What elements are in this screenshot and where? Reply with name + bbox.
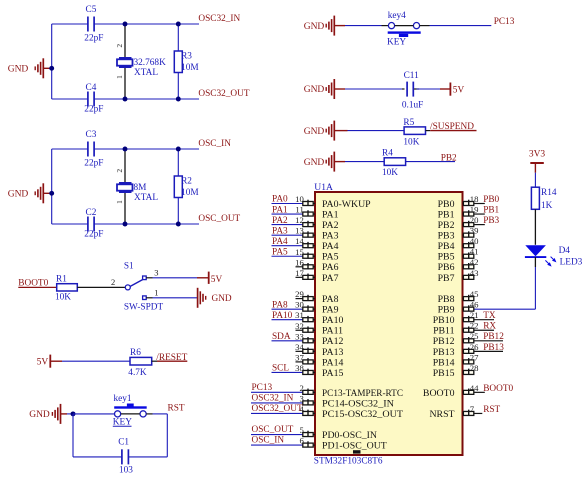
svg-text:PB12: PB12 — [483, 332, 504, 342]
svg-text:PB5: PB5 — [438, 252, 455, 263]
svg-text:C3: C3 — [86, 130, 97, 140]
svg-text:12: 12 — [295, 215, 304, 225]
svg-text:34: 34 — [295, 342, 304, 352]
svg-text:2: 2 — [115, 169, 124, 173]
svg-text:PA8: PA8 — [322, 294, 339, 305]
svg-text:42: 42 — [470, 257, 479, 267]
svg-text:PB15: PB15 — [433, 368, 455, 379]
svg-text:PB8: PB8 — [438, 294, 455, 305]
svg-text:26: 26 — [470, 342, 479, 352]
svg-text:5: 5 — [299, 425, 303, 435]
svg-text:XTAL: XTAL — [134, 193, 158, 203]
svg-text:43: 43 — [470, 268, 479, 278]
svg-text:PA1: PA1 — [272, 205, 288, 215]
svg-text:PB14: PB14 — [433, 357, 455, 368]
svg-text:PB13: PB13 — [433, 347, 455, 358]
svg-text:22pF: 22pF — [84, 229, 103, 239]
svg-text:PA0: PA0 — [272, 195, 288, 205]
svg-text:GND: GND — [29, 410, 50, 420]
svg-text:PA10: PA10 — [322, 315, 344, 326]
svg-text:13: 13 — [295, 226, 304, 236]
svg-text:PB13: PB13 — [483, 343, 504, 353]
svg-text:R3: R3 — [181, 52, 192, 62]
svg-text:GND: GND — [8, 190, 29, 200]
svg-text:41: 41 — [470, 247, 479, 257]
svg-text:PC13: PC13 — [252, 383, 273, 393]
svg-text:1: 1 — [115, 75, 124, 79]
svg-text:GND: GND — [304, 158, 325, 168]
svg-text:3: 3 — [299, 393, 303, 403]
svg-text:PA2: PA2 — [322, 220, 339, 231]
svg-text:2: 2 — [111, 277, 115, 287]
svg-text:PA5: PA5 — [322, 252, 339, 263]
svg-text:27: 27 — [470, 352, 479, 362]
svg-text:PA12: PA12 — [322, 336, 344, 347]
svg-text:R1: R1 — [56, 275, 67, 285]
svg-text:R5: R5 — [403, 118, 414, 128]
svg-text:10: 10 — [295, 194, 304, 204]
svg-text:OSC32_IN: OSC32_IN — [198, 14, 240, 24]
svg-text:GND: GND — [304, 127, 325, 137]
svg-text:10M: 10M — [181, 188, 199, 198]
svg-text:STM32F103C8T6: STM32F103C8T6 — [314, 457, 383, 467]
svg-text:BOOT0: BOOT0 — [423, 388, 455, 399]
svg-text:31: 31 — [295, 310, 304, 320]
svg-text:PA9: PA9 — [322, 305, 339, 316]
svg-text:PC15-OSC32_OUT: PC15-OSC32_OUT — [322, 409, 403, 420]
svg-text:LED3: LED3 — [560, 257, 583, 267]
svg-text:5V: 5V — [453, 86, 465, 96]
svg-text:22pF: 22pF — [84, 104, 103, 114]
svg-text:10K: 10K — [55, 293, 71, 303]
svg-text:29: 29 — [295, 289, 304, 299]
svg-text:32.768K: 32.768K — [134, 58, 167, 68]
svg-text:GND: GND — [304, 22, 325, 32]
svg-text:R2: R2 — [181, 177, 192, 187]
svg-text:3V3: 3V3 — [529, 150, 546, 160]
svg-text:20: 20 — [470, 215, 479, 225]
svg-text:C5: C5 — [86, 5, 97, 15]
svg-text:45: 45 — [470, 289, 479, 299]
svg-text:18: 18 — [470, 194, 479, 204]
svg-text:40: 40 — [470, 236, 479, 246]
svg-text:PA10: PA10 — [272, 311, 293, 321]
svg-text:SDA: SDA — [272, 332, 291, 342]
svg-text:1: 1 — [115, 200, 124, 204]
svg-text:XTAL: XTAL — [134, 68, 158, 78]
svg-text:17: 17 — [295, 268, 304, 278]
svg-text:PC13-TAMPER-RTC: PC13-TAMPER-RTC — [322, 388, 403, 399]
svg-text:C4: C4 — [86, 83, 97, 93]
svg-text:3: 3 — [154, 268, 158, 278]
svg-text:KEY: KEY — [387, 38, 406, 48]
svg-text:PA1: PA1 — [322, 209, 339, 220]
svg-text:11: 11 — [295, 205, 303, 215]
svg-text:PB2: PB2 — [438, 220, 455, 231]
svg-text:/SUSPEND: /SUSPEND — [430, 122, 474, 132]
svg-text:37: 37 — [295, 352, 304, 362]
svg-text:PA0-WKUP: PA0-WKUP — [322, 199, 371, 210]
svg-text:16: 16 — [295, 257, 304, 267]
svg-text:OSC_OUT: OSC_OUT — [252, 425, 294, 435]
svg-text:R14: R14 — [541, 188, 557, 198]
svg-text:19: 19 — [470, 204, 479, 214]
svg-text:D4: D4 — [559, 246, 571, 256]
svg-text:OSC_IN: OSC_IN — [252, 436, 285, 446]
svg-text:28: 28 — [470, 363, 479, 373]
svg-text:PD0-OSC_IN: PD0-OSC_IN — [322, 430, 377, 441]
svg-text:6: 6 — [299, 436, 304, 446]
svg-text:22: 22 — [470, 321, 479, 331]
svg-text:5V: 5V — [37, 358, 49, 368]
svg-text:PB1: PB1 — [483, 205, 499, 215]
svg-text:103: 103 — [119, 465, 133, 475]
svg-text:38: 38 — [295, 363, 304, 373]
svg-text:PA4: PA4 — [322, 241, 339, 252]
svg-text:PB0: PB0 — [438, 199, 455, 210]
svg-text:GND: GND — [212, 294, 232, 304]
svg-text:PA11: PA11 — [322, 326, 343, 337]
svg-text:8M: 8M — [134, 183, 147, 193]
svg-text:14: 14 — [295, 236, 304, 246]
svg-text:1K: 1K — [541, 201, 553, 211]
svg-text:2: 2 — [115, 44, 124, 48]
svg-text:U1A: U1A — [314, 182, 333, 193]
svg-text:1: 1 — [154, 287, 158, 297]
svg-text:15: 15 — [295, 247, 304, 257]
svg-text:PC13: PC13 — [494, 17, 515, 27]
svg-text:PB4: PB4 — [438, 241, 455, 252]
svg-text:PB6: PB6 — [438, 262, 455, 273]
svg-text:32: 32 — [295, 321, 304, 331]
svg-text:10M: 10M — [181, 63, 199, 73]
svg-text:PB7: PB7 — [438, 273, 455, 284]
svg-text:0.1uF: 0.1uF — [402, 101, 423, 111]
svg-text:PA2: PA2 — [272, 216, 288, 226]
svg-text:10K: 10K — [382, 168, 398, 178]
svg-text:OSC32_OUT: OSC32_OUT — [252, 404, 303, 414]
svg-text:7: 7 — [470, 404, 475, 414]
svg-text:SW-SPDT: SW-SPDT — [124, 302, 164, 312]
svg-text:OSC_IN: OSC_IN — [198, 139, 231, 149]
svg-text:PB12: PB12 — [433, 336, 455, 347]
svg-text:PD1-OSC_OUT: PD1-OSC_OUT — [322, 441, 387, 452]
svg-text:PA8: PA8 — [272, 300, 288, 310]
svg-text:R4: R4 — [382, 148, 393, 158]
svg-text:SCL: SCL — [272, 364, 289, 374]
svg-text:4.7K: 4.7K — [128, 368, 147, 378]
svg-text:44: 44 — [470, 383, 479, 393]
svg-text:TX: TX — [483, 311, 496, 321]
svg-text:S1: S1 — [124, 262, 134, 272]
svg-text:25: 25 — [470, 331, 479, 341]
svg-text:PB2: PB2 — [441, 153, 457, 163]
svg-text:PB9: PB9 — [438, 305, 455, 316]
svg-text:RST: RST — [168, 403, 185, 413]
svg-text:PB1: PB1 — [438, 209, 455, 220]
svg-text:PA6: PA6 — [322, 262, 339, 273]
svg-text:PA7: PA7 — [322, 273, 339, 284]
svg-text:BOOT0: BOOT0 — [483, 384, 513, 394]
svg-text:PA5: PA5 — [272, 247, 288, 257]
svg-text:22pF: 22pF — [84, 34, 103, 44]
svg-text:PA13: PA13 — [322, 347, 344, 358]
svg-text:key4: key4 — [388, 11, 406, 21]
svg-text:PA4: PA4 — [272, 237, 288, 247]
svg-text:2: 2 — [299, 383, 303, 393]
svg-text:PB3: PB3 — [483, 216, 499, 226]
svg-text:10K: 10K — [403, 137, 419, 147]
svg-text:C1: C1 — [118, 437, 129, 447]
svg-text:GND: GND — [8, 65, 29, 75]
svg-text:22pF: 22pF — [84, 159, 103, 169]
svg-text:OSC32_OUT: OSC32_OUT — [198, 89, 249, 99]
svg-text:OSC32_IN: OSC32_IN — [252, 393, 294, 403]
svg-text:OSC_OUT: OSC_OUT — [198, 214, 240, 224]
svg-text:PC14-OSC32_IN: PC14-OSC32_IN — [322, 398, 394, 409]
svg-text:PB0: PB0 — [483, 195, 499, 205]
svg-text:21: 21 — [470, 310, 479, 320]
svg-text:PA15: PA15 — [322, 368, 344, 379]
svg-text:PB11: PB11 — [433, 326, 455, 337]
svg-text:30: 30 — [295, 300, 304, 310]
svg-text:PA3: PA3 — [272, 226, 288, 236]
svg-text:46: 46 — [470, 300, 479, 310]
svg-text:NRST: NRST — [429, 409, 454, 420]
svg-text:4: 4 — [299, 404, 304, 414]
svg-text:33: 33 — [295, 331, 304, 341]
svg-text:C2: C2 — [86, 208, 97, 218]
svg-text:RST: RST — [483, 405, 500, 415]
svg-text:PB3: PB3 — [438, 231, 455, 242]
svg-text:GND: GND — [304, 85, 325, 95]
svg-text:key1: key1 — [114, 394, 132, 404]
svg-text:5V: 5V — [211, 275, 223, 285]
svg-text:C11: C11 — [404, 71, 420, 81]
svg-text:PA3: PA3 — [322, 231, 339, 242]
svg-text:/RESET: /RESET — [156, 353, 187, 363]
svg-text:R6: R6 — [130, 348, 141, 358]
svg-text:PA14: PA14 — [322, 357, 344, 368]
svg-text:39: 39 — [470, 226, 479, 236]
svg-text:PB10: PB10 — [433, 315, 455, 326]
svg-text:RX: RX — [483, 322, 496, 332]
